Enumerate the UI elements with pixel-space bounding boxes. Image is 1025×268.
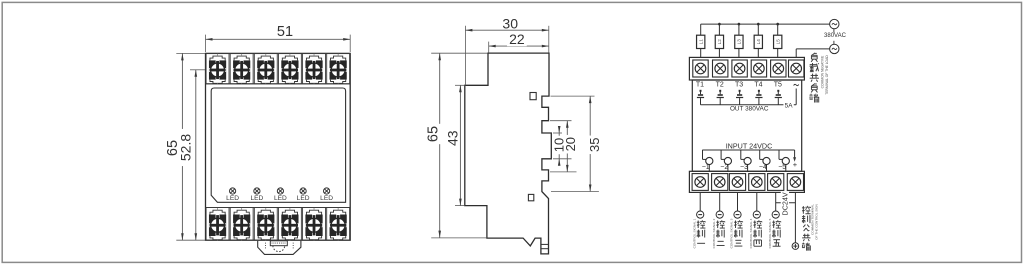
- svg-text:30: 30: [502, 16, 518, 32]
- svg-text:−4: −4: [759, 164, 767, 171]
- svg-text:CONTROL SIGNAL 5: CONTROL SIGNAL 5: [768, 218, 772, 248]
- svg-text:22: 22: [509, 31, 525, 47]
- svg-text:OF THE CONTROL SIGN: OF THE CONTROL SIGN: [814, 204, 818, 240]
- svg-text:L4: L4: [756, 39, 761, 45]
- svg-text:CONTROL SIGNAL 2: CONTROL SIGNAL 2: [712, 218, 716, 248]
- svg-text:−1: −1: [702, 164, 710, 171]
- svg-text:+: +: [793, 160, 798, 169]
- svg-text:L2: L2: [717, 39, 722, 45]
- svg-text:T3: T3: [735, 82, 743, 89]
- svg-text:DC24V: DC24V: [780, 192, 789, 215]
- svg-text:LED: LED: [274, 195, 287, 202]
- svg-text:T5: T5: [774, 82, 782, 89]
- svg-text:T2: T2: [716, 82, 724, 89]
- svg-text:OUT 380VAC: OUT 380VAC: [730, 105, 769, 112]
- svg-text:380VAC: 380VAC: [824, 33, 847, 39]
- svg-text:LED: LED: [226, 195, 239, 202]
- svg-text:20: 20: [563, 137, 578, 151]
- svg-text:T1: T1: [696, 82, 704, 89]
- svg-text:L1: L1: [698, 39, 703, 45]
- svg-text:−5: −5: [778, 164, 786, 171]
- svg-text:CONTROL SIGNAL 4: CONTROL SIGNAL 4: [749, 218, 753, 248]
- svg-text:INPUT 24VDC: INPUT 24VDC: [726, 141, 773, 150]
- svg-text:−2: −2: [720, 164, 728, 171]
- svg-text:LED: LED: [297, 195, 310, 202]
- svg-text:LED: LED: [250, 195, 263, 202]
- svg-text:51: 51: [277, 24, 293, 40]
- svg-text:LED: LED: [320, 195, 333, 202]
- svg-text:L5: L5: [775, 39, 780, 45]
- svg-text:52.8: 52.8: [177, 134, 193, 161]
- svg-text:L3: L3: [737, 39, 742, 45]
- svg-text:5A: 5A: [785, 103, 794, 110]
- svg-text:T4: T4: [754, 82, 762, 89]
- svg-text:−3: −3: [740, 164, 748, 171]
- svg-text:43: 43: [444, 130, 460, 146]
- svg-text:65: 65: [426, 126, 442, 142]
- svg-text:35: 35: [587, 138, 602, 152]
- svg-text:CONTROL SIGNAL 3: CONTROL SIGNAL 3: [730, 218, 734, 248]
- svg-text:CONTROL SIGNAL 1: CONTROL SIGNAL 1: [692, 218, 696, 248]
- svg-text:TERMINAL OF THE LOAD: TERMINAL OF THE LOAD: [825, 55, 829, 95]
